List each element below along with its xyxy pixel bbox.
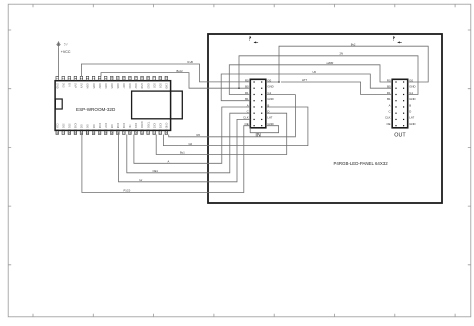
module U1 top pin numbers <box>55 77 168 80</box>
wire net R+B : ESP pin5 to IN row1 R0 <box>81 64 250 82</box>
wire net B : ESP to IN row6 D (wrap right) <box>169 95 296 137</box>
wire net LAT : ESP to IN row7 LAT (wrap right) <box>156 113 287 154</box>
svg-text:IO5: IO5 <box>110 124 113 129</box>
svg-text:A: A <box>168 160 170 164</box>
rail net R1 : IN row3 to OUT row1 <box>229 65 392 95</box>
svg-text:IO23: IO23 <box>158 123 161 129</box>
svg-text:R6: R6 <box>197 133 201 137</box>
svg-text:ESP-WROOM-32D: ESP-WROOM-32D <box>76 107 116 112</box>
svg-text:IO14: IO14 <box>128 83 131 89</box>
svg-text:TXD0: TXD0 <box>146 122 149 129</box>
svg-text:LAT: LAT <box>409 116 414 120</box>
wire net Buz2 : ESP pin8 to IN row2 B0 <box>101 73 250 89</box>
header J1 IN left pin labels <box>243 78 249 126</box>
svg-text:IO4: IO4 <box>92 124 95 129</box>
net flag above IN header <box>249 36 258 44</box>
LED panel module outline <box>208 34 442 203</box>
svg-text:IO22: IO22 <box>152 123 155 129</box>
svg-text:IO21: IO21 <box>134 123 137 129</box>
rail net B1 : IN row4 to OUT row2 <box>221 74 392 101</box>
svg-text:2N: 2N <box>340 52 343 56</box>
svg-text:GND: GND <box>55 83 58 89</box>
svg-text:OE: OE <box>386 122 390 126</box>
junction G0 branch <box>278 81 279 82</box>
svg-text:CMD: CMD <box>164 83 167 89</box>
header J2 OUT right pin labels <box>409 78 415 126</box>
svg-text:NC: NC <box>128 125 131 129</box>
svg-text:EN: EN <box>68 83 71 87</box>
module U1 side pin EN <box>55 99 62 109</box>
svg-text:GND: GND <box>409 85 415 89</box>
svg-text:GND: GND <box>164 123 167 129</box>
wire net GND wrap under IN header <box>250 126 278 133</box>
svg-text:SVN: SVN <box>80 83 83 88</box>
svg-text:CLK: CLK <box>385 116 391 120</box>
svg-text:IO32: IO32 <box>98 83 101 89</box>
junction B0 branch <box>238 88 239 89</box>
module U1 shield sub-block <box>132 91 183 119</box>
svg-text:GND: GND <box>409 97 415 101</box>
rail net B0 top <box>239 56 418 95</box>
svg-text:D: D <box>409 110 411 114</box>
svg-text:OUT: OUT <box>394 133 406 139</box>
svg-text:GND: GND <box>267 97 273 101</box>
module U1 bottom pin numbers <box>55 131 168 134</box>
svg-text:CLK: CLK <box>55 123 58 128</box>
svg-text:HT7: HT7 <box>302 78 308 82</box>
svg-text:Buz2: Buz2 <box>177 69 184 73</box>
svg-text:Bu1: Bu1 <box>180 151 185 155</box>
svg-text:LAT: LAT <box>267 116 272 120</box>
power flag +VCC (5V) <box>56 41 71 54</box>
svg-text:Bv2: Bv2 <box>351 42 356 46</box>
svg-text:IO13: IO13 <box>146 83 149 89</box>
wire net A : ESP to IN row5 A <box>134 107 250 163</box>
header J1 IN right pin labels <box>267 78 273 126</box>
svg-text:IO27: IO27 <box>122 83 125 89</box>
svg-text:U0: U0 <box>313 70 317 74</box>
header J2 OUT <box>392 79 408 138</box>
svg-text:IO34: IO34 <box>86 83 89 89</box>
svg-text:P1C0: P1C0 <box>124 189 131 193</box>
svg-text:IO17: IO17 <box>104 123 107 129</box>
svg-text:u2RR: u2RR <box>327 61 334 65</box>
svg-text:3V3: 3V3 <box>61 83 64 88</box>
svg-text:IO33: IO33 <box>104 83 107 89</box>
svg-text:SVP: SVP <box>74 83 77 88</box>
svg-text:IO15: IO15 <box>74 123 77 129</box>
svg-text:IO19: IO19 <box>122 123 125 129</box>
svg-text:C: C <box>388 110 390 114</box>
wire VCC to pin 1 <box>57 47 58 76</box>
svg-text:+VCC: +VCC <box>61 50 71 54</box>
svg-text:IO18: IO18 <box>116 123 119 129</box>
svg-text:P4RGB-LED-PANEL 64X32: P4RGB-LED-PANEL 64X32 <box>334 161 389 166</box>
svg-text:IN: IN <box>255 133 260 139</box>
svg-text:IO25: IO25 <box>110 83 113 89</box>
svg-text:IO2: IO2 <box>80 124 83 129</box>
svg-text:GND: GND <box>409 122 415 126</box>
svg-text:A: A <box>389 103 391 107</box>
rail net G1 : IN row1 right run to OUT row3 <box>281 82 392 95</box>
svg-text:B: B <box>409 103 411 107</box>
module U1 top pin row <box>56 76 168 81</box>
svg-text:B1: B1 <box>387 97 391 101</box>
wire net OE : ESP to IN row8 OE <box>82 126 250 193</box>
svg-text:GND: GND <box>140 83 143 89</box>
svg-text:Iw: Iw <box>140 178 143 182</box>
header J1 IN <box>250 79 265 138</box>
net flag above OUT header <box>393 36 402 44</box>
svg-text:IO0: IO0 <box>86 124 89 129</box>
svg-text:IO35: IO35 <box>92 83 95 89</box>
svg-text:R+B: R+B <box>188 60 194 64</box>
module U1 ESP-WROOM-32D body <box>55 81 171 131</box>
svg-text:OE1: OE1 <box>153 169 159 173</box>
wire net D : ESP to IN row5 B (wrap right) <box>163 107 308 146</box>
svg-text:RXD0: RXD0 <box>140 122 143 129</box>
wire net CLK : ESP to IN row7 CLK <box>119 119 251 181</box>
svg-text:SD1: SD1 <box>68 123 71 128</box>
wire net C : ESP to IN row6 C <box>127 113 251 173</box>
svg-text:IO26: IO26 <box>116 83 119 89</box>
svg-text:SD3: SD3 <box>158 83 161 88</box>
header J2 OUT left pin labels <box>385 78 391 126</box>
module U1 bottom pin names <box>55 122 167 129</box>
svg-text:IO16: IO16 <box>98 123 101 129</box>
svg-text:IO12: IO12 <box>134 83 137 89</box>
svg-text:SD0: SD0 <box>61 123 64 128</box>
svg-text:GND: GND <box>267 85 273 89</box>
module U1 top pin names <box>55 83 167 89</box>
svg-text:G0: G0 <box>189 142 193 146</box>
svg-text:SD2: SD2 <box>152 83 155 88</box>
module U1 bottom pin row <box>56 130 168 135</box>
rail net G0 top <box>266 46 428 82</box>
